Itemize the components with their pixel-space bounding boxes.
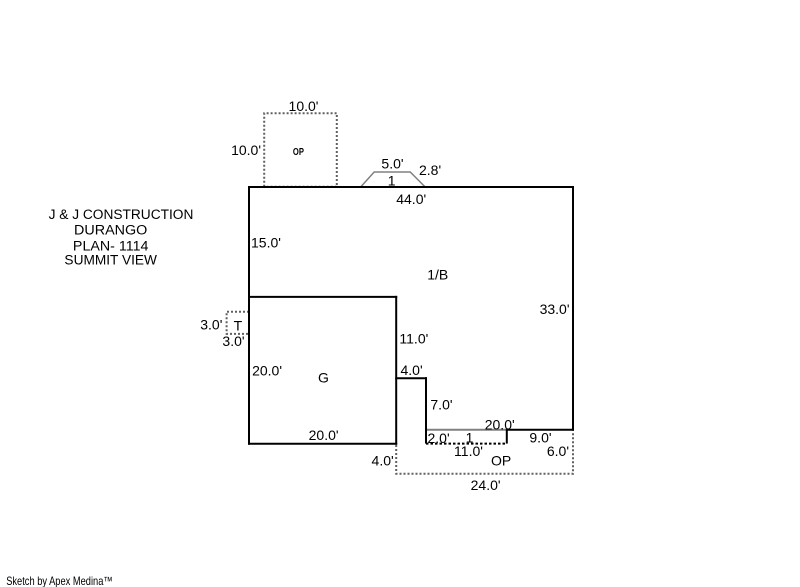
svg-text:20.0': 20.0'	[309, 427, 339, 443]
wall: step down 2.0' at right of bump	[506, 429, 508, 444]
svg-text:10.0': 10.0'	[231, 142, 261, 158]
svg-text:5.0': 5.0'	[381, 155, 403, 171]
garage bottom wall	[248, 443, 397, 445]
svg-text:4.0': 4.0'	[401, 362, 423, 378]
main wall: top edge 44.0'	[248, 186, 574, 188]
svg-text:OP: OP	[491, 452, 511, 468]
svg-text:2.8': 2.8'	[419, 162, 441, 178]
tub/stoop T dashed outline	[227, 312, 249, 334]
svg-text:DURANGO: DURANGO	[74, 223, 147, 238]
garage right wall	[395, 296, 397, 445]
svg-text:G: G	[318, 369, 329, 385]
svg-text:T: T	[234, 318, 243, 334]
svg-text:3.0': 3.0'	[222, 333, 244, 349]
svg-text:11.0': 11.0'	[399, 330, 428, 346]
wall: step 4.0' horizontal	[395, 377, 427, 379]
svg-text:7.0': 7.0'	[430, 397, 452, 413]
garage top wall	[248, 296, 397, 298]
interior division line (gray) between 1/B and 1-story bump	[426, 429, 507, 431]
svg-text:2.0': 2.0'	[428, 430, 450, 446]
main wall: right edge 33.0'	[572, 186, 574, 431]
svg-text:Sketch by Apex Medina™: Sketch by Apex Medina™	[6, 574, 113, 587]
svg-text:6.0': 6.0'	[547, 443, 569, 459]
svg-text:24.0': 24.0'	[471, 477, 501, 493]
svg-text:PLAN- 1114: PLAN- 1114	[73, 239, 149, 254]
open porch OP (bottom) dashed outline	[396, 432, 573, 474]
svg-text:10.0': 10.0'	[289, 98, 319, 114]
svg-text:OP: OP	[293, 147, 304, 158]
svg-text:J & J CONSTRUCTION: J & J CONSTRUCTION	[49, 207, 194, 222]
svg-text:SUMMIT VIEW: SUMMIT VIEW	[64, 253, 157, 268]
svg-text:20.0': 20.0'	[485, 416, 515, 432]
porch bump bottom edge (black dashed)	[426, 443, 507, 445]
svg-text:11.0': 11.0'	[454, 443, 483, 459]
svg-text:15.0': 15.0'	[251, 235, 281, 251]
bay window trapezoid (gray)	[361, 172, 425, 187]
wall: bump left vertical 7.0'+2.0'	[425, 377, 427, 443]
svg-text:1/B: 1/B	[427, 267, 448, 283]
svg-text:20.0': 20.0'	[252, 363, 282, 379]
svg-text:44.0': 44.0'	[396, 191, 426, 207]
main wall: bottom-right 9.0'	[507, 429, 574, 431]
svg-text:33.0': 33.0'	[540, 301, 570, 317]
svg-text:4.0': 4.0'	[372, 452, 394, 468]
svg-text:1: 1	[388, 172, 396, 188]
main wall: left edge 15.0'+garage	[248, 186, 250, 445]
svg-text:3.0': 3.0'	[200, 317, 222, 333]
open porch OP (top) dashed outline	[264, 113, 337, 187]
